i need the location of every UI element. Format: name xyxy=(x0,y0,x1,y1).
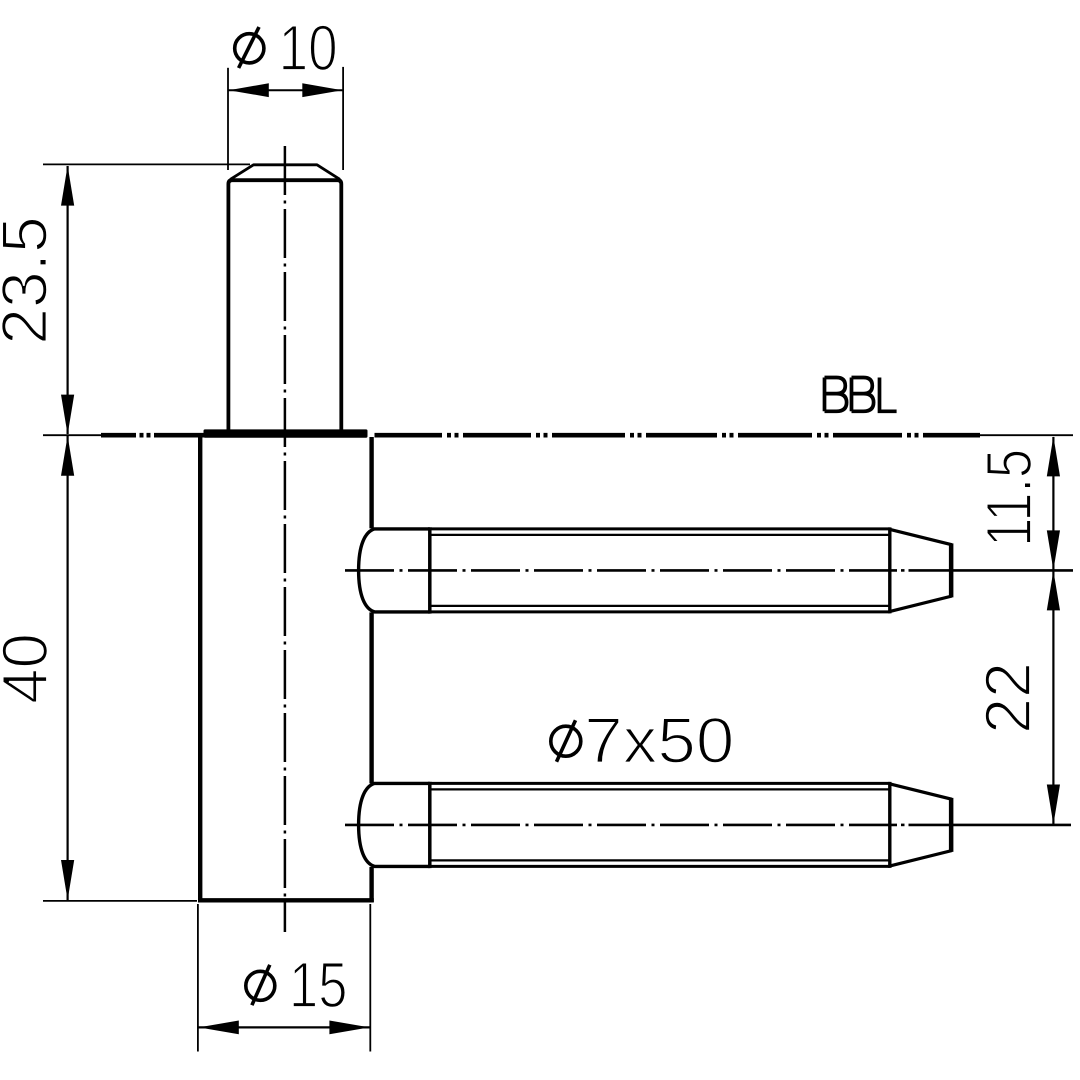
svg-text:15: 15 xyxy=(289,949,347,1021)
svg-text:40: 40 xyxy=(0,633,61,704)
svg-text:22: 22 xyxy=(972,662,1044,734)
svg-text:10: 10 xyxy=(279,12,338,84)
svg-text:11.5: 11.5 xyxy=(973,449,1045,547)
svg-text:23.5: 23.5 xyxy=(0,216,60,345)
svg-text:7x50: 7x50 xyxy=(584,704,734,776)
